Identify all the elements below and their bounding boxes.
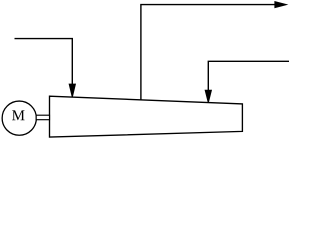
screw conveyor body (trapezoid) <box>50 96 243 137</box>
wire: left feed line <box>15 39 73 85</box>
motor shaft <box>36 115 49 120</box>
motor label M <box>12 110 24 120</box>
arrowhead: right feed into conveyor <box>205 90 211 102</box>
wire: top output line <box>141 5 276 100</box>
wire: right feed line <box>208 61 289 91</box>
motor M1 (circle) <box>2 101 36 135</box>
arrowhead: left feed into conveyor <box>69 84 75 97</box>
arrowhead: output to right <box>275 2 287 8</box>
